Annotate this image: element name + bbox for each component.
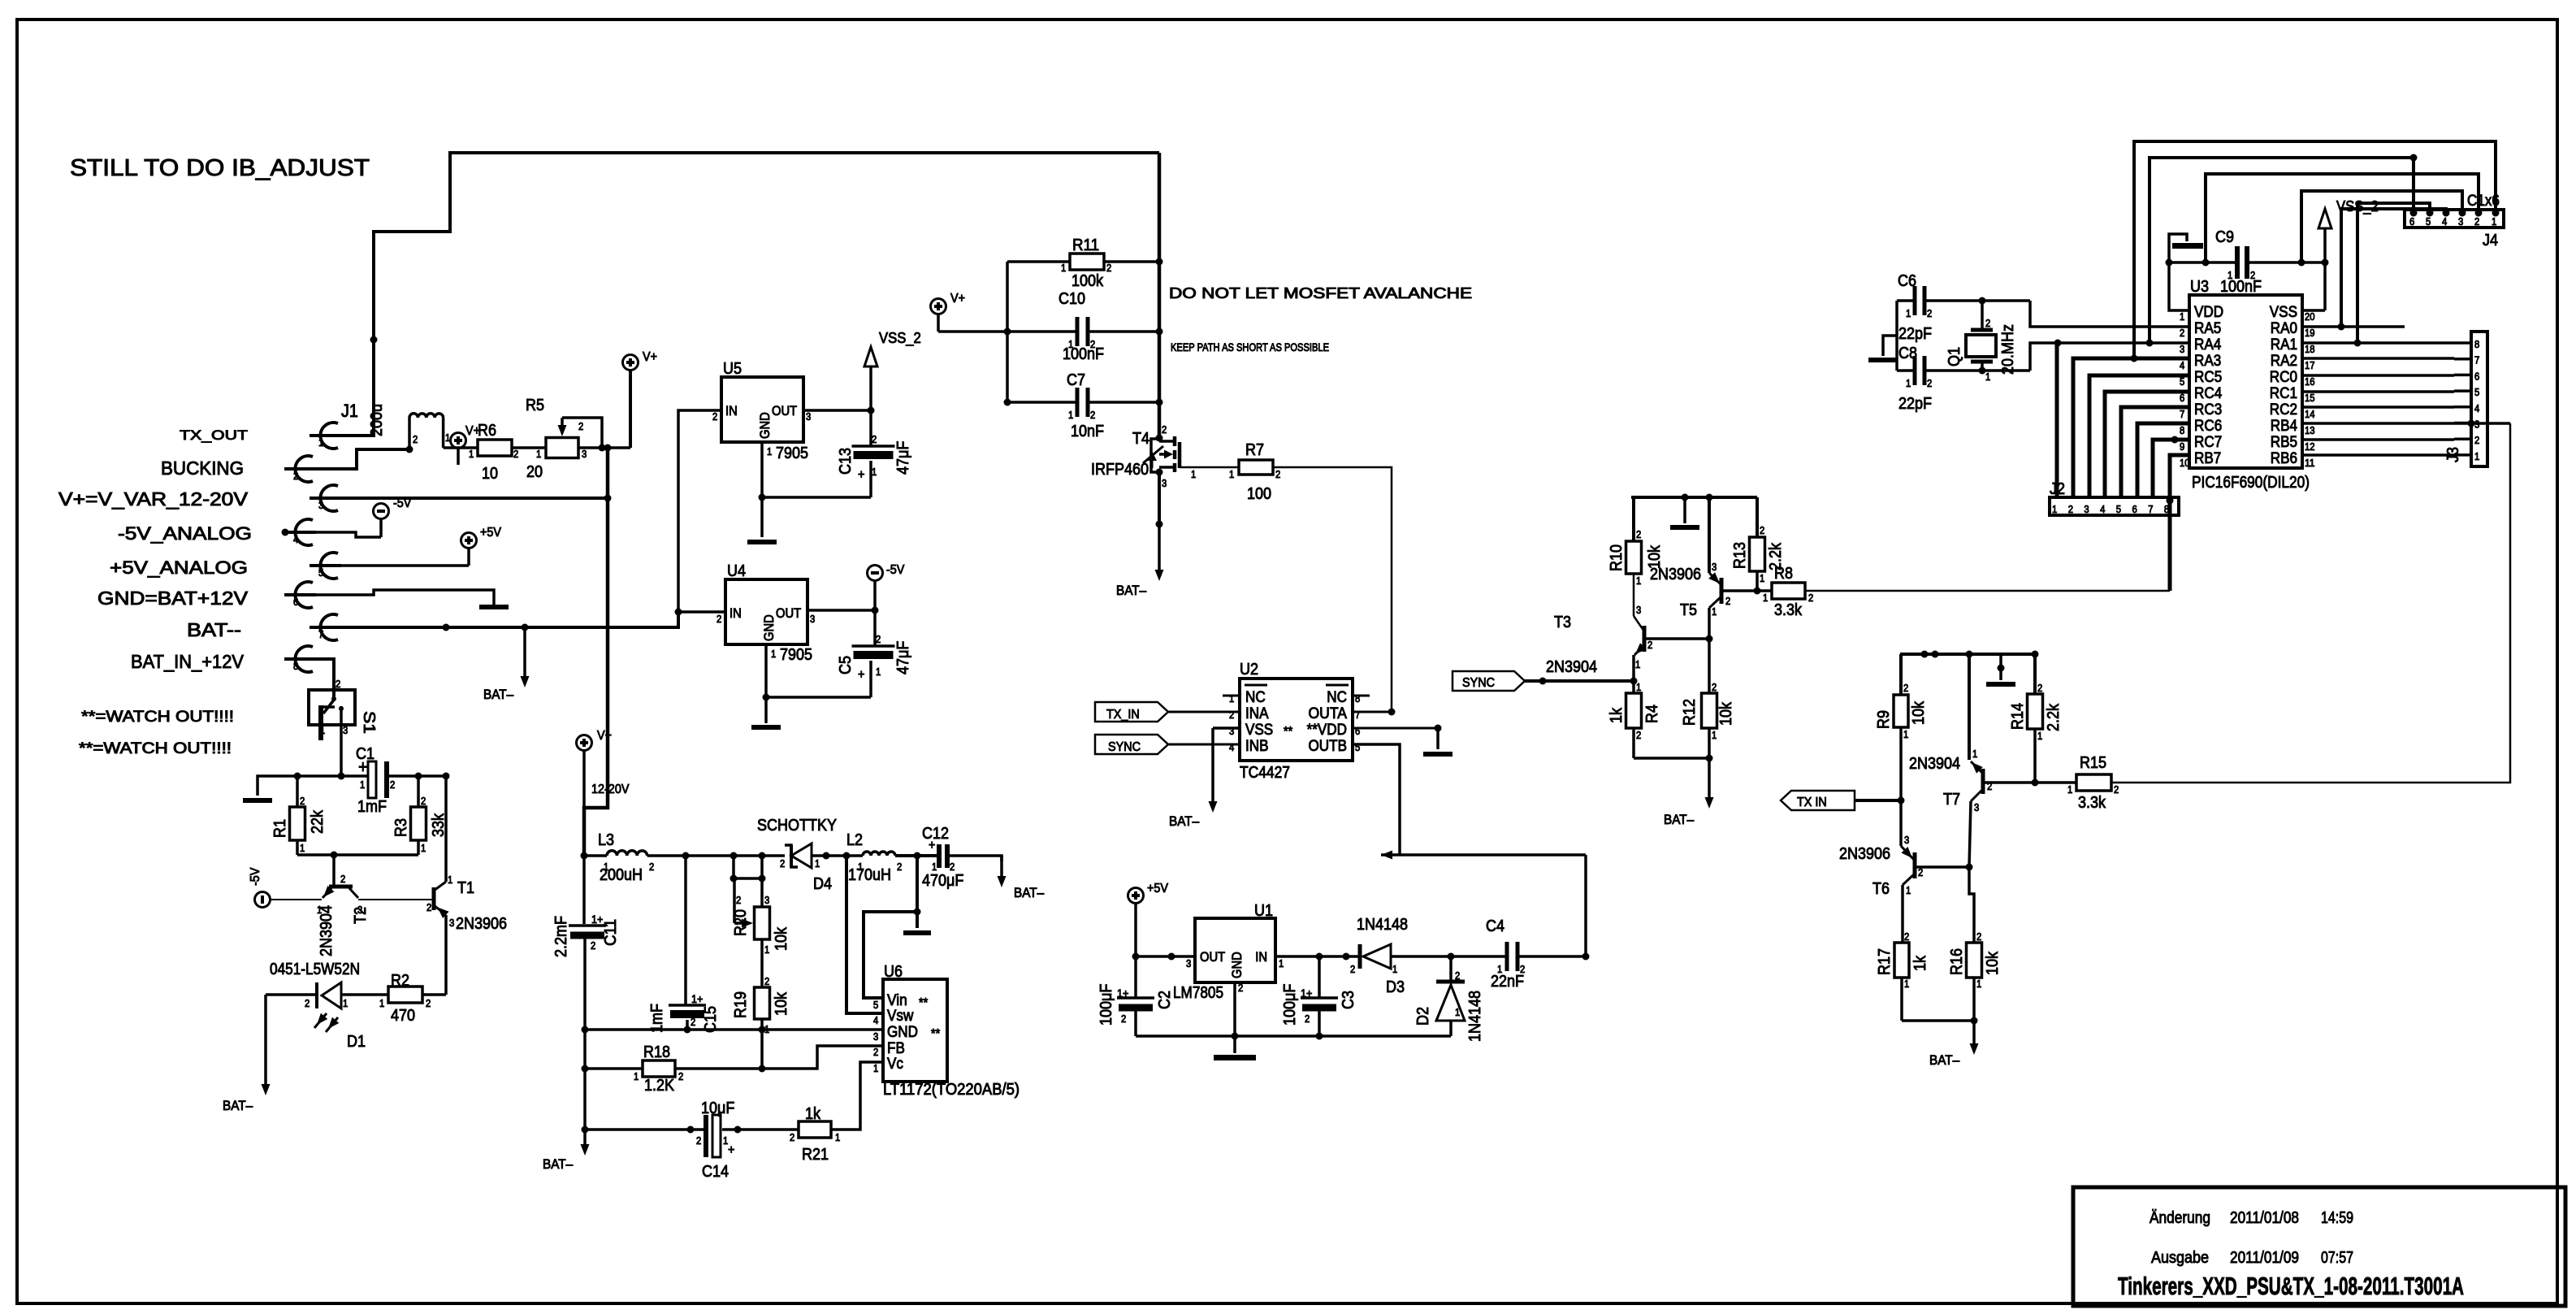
svg-text:2N3904: 2N3904 [1909,755,1960,773]
power -5V U4 [868,563,905,581]
svg-text:2N3904: 2N3904 [318,905,336,956]
svg-text:11: 11 [2305,458,2315,469]
node BAT arrow branch [522,624,529,631]
resistor R10 [1626,497,1642,616]
svg-text:2: 2 [1636,529,1641,540]
svg-text:200u: 200u [368,404,386,436]
svg-text:1: 1 [2474,451,2479,462]
svg-text:VSS_2: VSS_2 [879,329,921,347]
BAT- arrow T4 [1155,524,1164,581]
power V+ at R6 [451,424,481,465]
value T4 IRFP460 [1091,461,1149,479]
svg-text:L2: L2 [846,831,863,849]
diode D3 1N4148 [1350,944,1397,975]
node R11 bus [1156,258,1163,266]
svg-text:**VDD: **VDD [1307,722,1347,739]
ground C12 [903,912,931,933]
svg-text:BAT–: BAT– [1014,886,1045,900]
svg-text:R10: R10 [1608,544,1626,571]
svg-text:C5: C5 [837,656,855,674]
svg-text:INA: INA [1245,705,1269,722]
label R3 [392,818,410,837]
svg-text:VSS: VSS [1245,722,1273,739]
svg-text:2: 2 [1162,424,1167,436]
svg-text:RA5: RA5 [2194,320,2221,337]
R5 wiper [558,418,603,448]
svg-text:C10: C10 [1059,290,1085,308]
svg-text:R17: R17 [1876,948,1894,975]
node R20 wiper a [730,852,738,860]
wire VSS pin [2302,309,2325,312]
svg-text:R8: R8 [1774,565,1793,583]
svg-text:100k: 100k [1072,272,1104,290]
svg-text:3: 3 [2084,504,2089,515]
wire R18 to FB [675,1046,883,1069]
label R14 [2009,703,2027,730]
label C6 [1898,272,1916,290]
svg-text:8: 8 [293,661,298,672]
svg-text:R2: R2 [391,972,409,990]
svg-text:BAT–: BAT– [223,1099,253,1113]
wire RB5 J3 pin2 [2302,438,2454,441]
node rail C10 [1004,328,1011,336]
wire pin3 V_VAR [341,497,608,500]
label BAT- T4 [1116,583,1147,598]
wire L2 to C12 [895,854,937,857]
label T6 [1872,880,1890,898]
svg-text:SCHOTTKY: SCHOTTKY [757,817,837,835]
svg-text:T1: T1 [457,879,474,897]
wire C11 to C14 rail [582,1030,589,1134]
svg-text:2: 2 [336,679,340,690]
svg-text:SYNC: SYNC [1108,740,1141,754]
value C1 1mF [357,798,387,816]
svg-text:1mF: 1mF [357,798,387,816]
svg-text:18: 18 [2305,344,2315,355]
svg-text:1: 1 [634,1071,639,1082]
note WATCH OUT 2 [79,740,232,757]
svg-text:1: 1 [469,449,474,460]
svg-text:2: 2 [1350,964,1355,975]
svg-text:U4: U4 [727,562,746,580]
svg-text:6: 6 [2132,504,2137,515]
svg-text:BAT–: BAT– [1664,813,1695,827]
svg-text:47μF: 47μF [894,641,912,674]
net label BAT-- [187,619,241,640]
svg-text:2: 2 [340,874,345,885]
svg-text:TX_IN: TX_IN [1106,708,1140,722]
wire J4 pin5 RA1 [2357,203,2430,343]
svg-text:GND=BAT+12V: GND=BAT+12V [97,588,249,609]
connector J3 [2454,332,2487,466]
svg-text:R4: R4 [1643,705,1661,723]
wire U2 VSS [1209,728,1240,813]
value T5 2N3906 [1650,566,1701,583]
value U1 LM7805 [1173,984,1223,1002]
label L3 [598,831,614,849]
power V+ main [623,350,658,448]
wire RB7 to J2 pin8 [2167,455,2190,591]
value Q1 20MHz [1999,324,2017,375]
node C7 bus [1156,399,1163,406]
label BAT- C11 [543,1157,574,1172]
svg-text:+5V_ANALOG: +5V_ANALOG [110,557,248,578]
node T4 source [1156,521,1163,528]
value C12 470uF [922,872,963,890]
capacitor C12 470uF [929,839,955,873]
svg-text:LT1172(TO220AB/5): LT1172(TO220AB/5) [883,1081,1020,1099]
svg-text:5: 5 [2116,504,2121,515]
power -5V at T2 [249,867,271,907]
svg-text:1: 1 [2180,311,2184,323]
value C10 100nF [1063,345,1104,363]
wire pin4 -5V [282,529,382,538]
svg-text:2: 2 [1904,931,1909,943]
svg-text:Ausgabe: Ausgabe [2151,1249,2209,1267]
value C6 22pF [1898,325,1932,343]
svg-text:12: 12 [2305,441,2315,453]
svg-text:2N3904: 2N3904 [1546,658,1597,676]
svg-text:4: 4 [2474,403,2479,414]
svg-text:TX_OUT: TX_OUT [180,427,248,443]
svg-text:470μF: 470μF [922,872,963,890]
label R13 [1731,542,1749,569]
value U2 TC4427 [1240,764,1290,782]
svg-text:22k: 22k [309,809,327,834]
wire RB4 J3 pin3 [2302,420,2510,427]
svg-text:C12: C12 [922,825,949,843]
svg-text:1: 1 [873,1063,878,1074]
wire R6 to R5 [512,446,546,449]
node U5 out [868,407,875,414]
flag TX_IN 2 [1781,791,1901,810]
label R17 [1876,948,1894,975]
value C14 10uF [701,1099,734,1117]
svg-text:2: 2 [293,471,298,482]
svg-text:TC4427: TC4427 [1240,764,1290,782]
svg-text:2: 2 [736,895,741,906]
label R8 [1774,565,1793,583]
power -5V analog [374,497,412,537]
svg-text:10μF: 10μF [701,1099,734,1117]
svg-text:OUT: OUT [772,404,797,418]
J1 pin 8 arc [284,646,316,672]
svg-text:3: 3 [2180,344,2184,355]
wire U5 OUT [803,409,871,412]
svg-text:RA2: RA2 [2271,353,2297,370]
node T7 base R14 [2032,779,2039,787]
svg-text:1: 1 [2067,784,2072,796]
svg-text:2: 2 [300,796,305,807]
IC U1 LM7805 [1186,918,1284,994]
svg-text:J4: J4 [2483,232,2498,249]
svg-text:STILL TO DO IB_ADJUST: STILL TO DO IB_ADJUST [70,155,370,181]
resistor R12 [1702,639,1717,758]
svg-text:1+: 1+ [1301,987,1312,1000]
value C3 100uF [1281,984,1299,1026]
wire T6 bottom rail [1902,1017,1978,1025]
mosfet T4 IRFP460 [1143,402,1196,524]
svg-text:1: 1 [1976,978,1981,990]
node R19 gnd row [759,1026,766,1034]
svg-text:1k: 1k [805,1105,821,1123]
node pin3 bus [604,495,612,502]
label D4 [813,875,832,893]
transistor T6 2N3906 [1901,835,1969,943]
label BAT- U2 [1169,814,1200,829]
svg-text:SYNC: SYNC [1462,676,1495,690]
svg-text:2: 2 [1106,262,1111,274]
wire U4 IN [678,610,725,614]
wire J2 pin6 RC6 [2137,423,2189,497]
svg-text:1: 1 [767,446,772,458]
value C11 2.2mF [552,916,570,957]
svg-text:2: 2 [2474,435,2479,446]
power V+ 12-20V [577,729,613,808]
svg-text:R7: R7 [1245,441,1264,459]
svg-text:10: 10 [2180,458,2190,469]
node L3 left [581,852,588,860]
svg-text:2: 2 [2180,327,2184,339]
label C10 [1059,290,1085,308]
svg-text:C1: C1 [356,745,374,763]
svg-text:V+: V+ [950,292,965,306]
svg-text:3: 3 [810,614,815,625]
svg-text:2: 2 [1121,1013,1126,1025]
ground T5 rail [1670,497,1699,527]
wire RA4 link [2030,340,2189,371]
svg-text:BAT_IN_+12V: BAT_IN_+12V [131,651,245,672]
node T5 T3 base [1706,635,1713,643]
wire C7 right [1088,401,1159,404]
svg-text:GND: GND [758,412,773,439]
wire J4 pin6 RA4 [2150,154,2418,344]
label R16 [1948,948,1966,975]
wire top bus vertical [1158,153,1162,439]
svg-text:19: 19 [2305,327,2315,339]
capacitor C14 10uF [696,1115,734,1157]
resistor R8 [1757,583,1813,604]
label C13 [837,448,855,475]
svg-text:1: 1 [872,466,877,478]
svg-text:47μF: 47μF [894,441,912,475]
label R10 [1608,544,1626,571]
value R3 33k [430,813,448,837]
power V+ R11 [931,292,966,332]
value R5 20 [526,463,543,481]
svg-text:+: + [858,468,864,482]
svg-text:**=WATCH OUT!!!!: **=WATCH OUT!!!! [79,740,232,757]
node C15 bottom [684,1026,691,1034]
svg-text:22nF: 22nF [1491,973,1524,991]
value R12 10k [1717,701,1735,726]
node T2 base [331,852,338,859]
svg-text:3: 3 [1162,478,1167,489]
wire C1 row b [389,774,446,778]
svg-text:BAT--: BAT-- [187,619,241,640]
svg-text:V+: V+ [597,729,612,743]
svg-text:IN: IN [1255,950,1267,965]
wire C10 row left [938,330,1077,333]
wire R8 to RB7 [1805,590,2170,592]
note DO NOT LET [1169,285,1472,301]
value C2 100uF [1098,984,1115,1026]
wire RA1 J3 pin8 [2302,340,2454,347]
ground C9 [2166,234,2204,267]
value T2 2N3904 [318,905,336,956]
svg-text:R12: R12 [1681,699,1699,726]
svg-text:T3: T3 [1554,614,1571,631]
svg-text:7: 7 [2474,355,2479,366]
wire +5V rail [1132,903,1140,998]
svg-text:2: 2 [872,434,877,445]
LED D1 [305,982,388,1032]
label R15 [2080,754,2106,772]
label 1N4148 D3 [1357,916,1408,934]
svg-text:12-20V: 12-20V [591,783,630,796]
value R11 100k [1072,272,1104,290]
svg-text:1: 1 [771,648,776,660]
resistor R14 [2028,654,2043,783]
wire T3 bottom rail [1634,755,1713,762]
svg-text:2: 2 [1987,781,1992,792]
svg-text:4: 4 [293,534,298,545]
svg-text:T2: T2 [352,907,370,924]
svg-text:2: 2 [897,861,902,873]
value D2 1N4148 [1466,991,1484,1042]
connector J4 C1x6 [2405,210,2504,228]
svg-text:10k: 10k [1910,700,1928,725]
resistor R18 [634,1060,683,1082]
wire J4 pin1 RA3 [2134,141,2496,358]
node R18 left [582,1065,589,1073]
svg-text:RC2: RC2 [2270,401,2297,418]
capacitor C11 2.2mF [569,856,606,1030]
value U3 PIC16F690 [2192,474,2310,492]
transistor T7 2N3904 [1969,654,2035,867]
svg-text:BAT–: BAT– [1929,1053,1960,1068]
svg-text:BAT–: BAT– [483,687,514,702]
wire U5 IN [678,410,721,612]
svg-text:RC7: RC7 [2194,434,2222,451]
value C5 47uF [894,641,912,674]
wire R1 R3 bottom row [297,853,418,856]
wire R20 R19 [760,939,764,987]
svg-text:BUCKING: BUCKING [161,458,244,479]
wire R15 to J3 [2111,423,2510,783]
wire RC0 J3 pin6 [2302,374,2454,377]
J1 pin 4 arc [284,519,316,545]
wire J4 pin3 VSS [2301,191,2462,262]
svg-text:Vc: Vc [887,1056,903,1073]
svg-text:20: 20 [2305,311,2315,323]
connector J2 [2050,497,2179,515]
svg-text:NC: NC [1245,689,1266,706]
node T3 emitter [1630,678,1638,685]
svg-text:10k: 10k [773,926,790,951]
svg-text:2011/01/08: 2011/01/08 [2230,1209,2299,1227]
svg-text:R14: R14 [2009,703,2027,730]
svg-text:1: 1 [1985,371,1990,383]
wire R2 to T1 [422,993,446,996]
svg-text:3: 3 [318,500,323,511]
label S1 [360,711,378,734]
wire R18 left [585,1067,643,1070]
resistor R3 [411,776,426,855]
svg-text:2: 2 [426,902,431,913]
node R1 top [294,773,301,780]
inductor L2 170uH [858,852,902,873]
IC U2 TC4427 [1229,679,1360,761]
label C1 [356,745,374,763]
title text Aenderung [2150,1209,2353,1227]
svg-text:7: 7 [2148,504,2153,515]
svg-text:**=WATCH OUT!!!!: **=WATCH OUT!!!! [81,709,234,726]
resistor R7 [1229,460,1280,480]
svg-text:3.3k: 3.3k [2078,794,2106,812]
svg-text:2.2mF: 2.2mF [552,916,570,957]
svg-text:1: 1 [1061,262,1066,274]
net label GND=BAT+12V [97,588,249,609]
svg-text:R3: R3 [392,818,410,837]
value C4 22nF [1491,973,1524,991]
svg-text:Vsw: Vsw [887,1008,914,1025]
svg-text:3: 3 [806,411,811,423]
wire R21 to Vc [831,1062,883,1130]
svg-text:1: 1 [2037,731,2042,742]
wire D1 to BAT- [262,995,318,1095]
label BAT- T3 [1664,813,1695,827]
node OUTA [1388,709,1396,716]
svg-text:0451-L5W52N: 0451-L5W52N [270,961,360,978]
rail T3 T5 [1631,494,1757,501]
svg-text:V+: V+ [643,350,657,364]
svg-text:T7: T7 [1943,791,1960,809]
wire U5 GND [759,442,872,501]
value L2 170uH [848,866,891,884]
node R20 top [759,852,766,860]
svg-text:V+=V_VAR_12-20V: V+=V_VAR_12-20V [58,488,249,510]
node T6 base [1966,864,1973,871]
svg-text:7905: 7905 [776,445,808,462]
svg-text:RB5: RB5 [2271,434,2297,451]
value R19 10k [773,991,790,1016]
svg-text:OUT: OUT [1200,950,1225,965]
capacitor C1 [358,757,395,798]
svg-text:2: 2 [691,1017,695,1028]
node R5 wiper join [599,445,606,452]
label T3 [1554,614,1571,631]
value R16 10k [1984,951,2002,975]
svg-text:2: 2 [421,796,426,807]
value L3 200uH [600,866,643,884]
svg-text:S1: S1 [360,711,378,734]
svg-text:R20: R20 [732,909,750,936]
label C2 [1156,991,1174,1009]
svg-text:1: 1 [835,1132,840,1143]
svg-text:3: 3 [582,449,587,460]
svg-text:5: 5 [2474,387,2479,398]
svg-text:2: 2 [1238,982,1243,994]
svg-text:2: 2 [426,998,431,1009]
svg-text:2: 2 [2037,683,2042,694]
svg-text:100μF: 100μF [1098,984,1115,1026]
svg-text:1: 1 [2052,504,2057,515]
svg-text:KEEP PATH AS SHORT AS POSSIBLE: KEEP PATH AS SHORT AS POSSIBLE [1171,340,1329,353]
value R1 22k [309,809,327,834]
svg-text:5: 5 [2180,376,2184,388]
svg-text:INB: INB [1245,738,1269,755]
